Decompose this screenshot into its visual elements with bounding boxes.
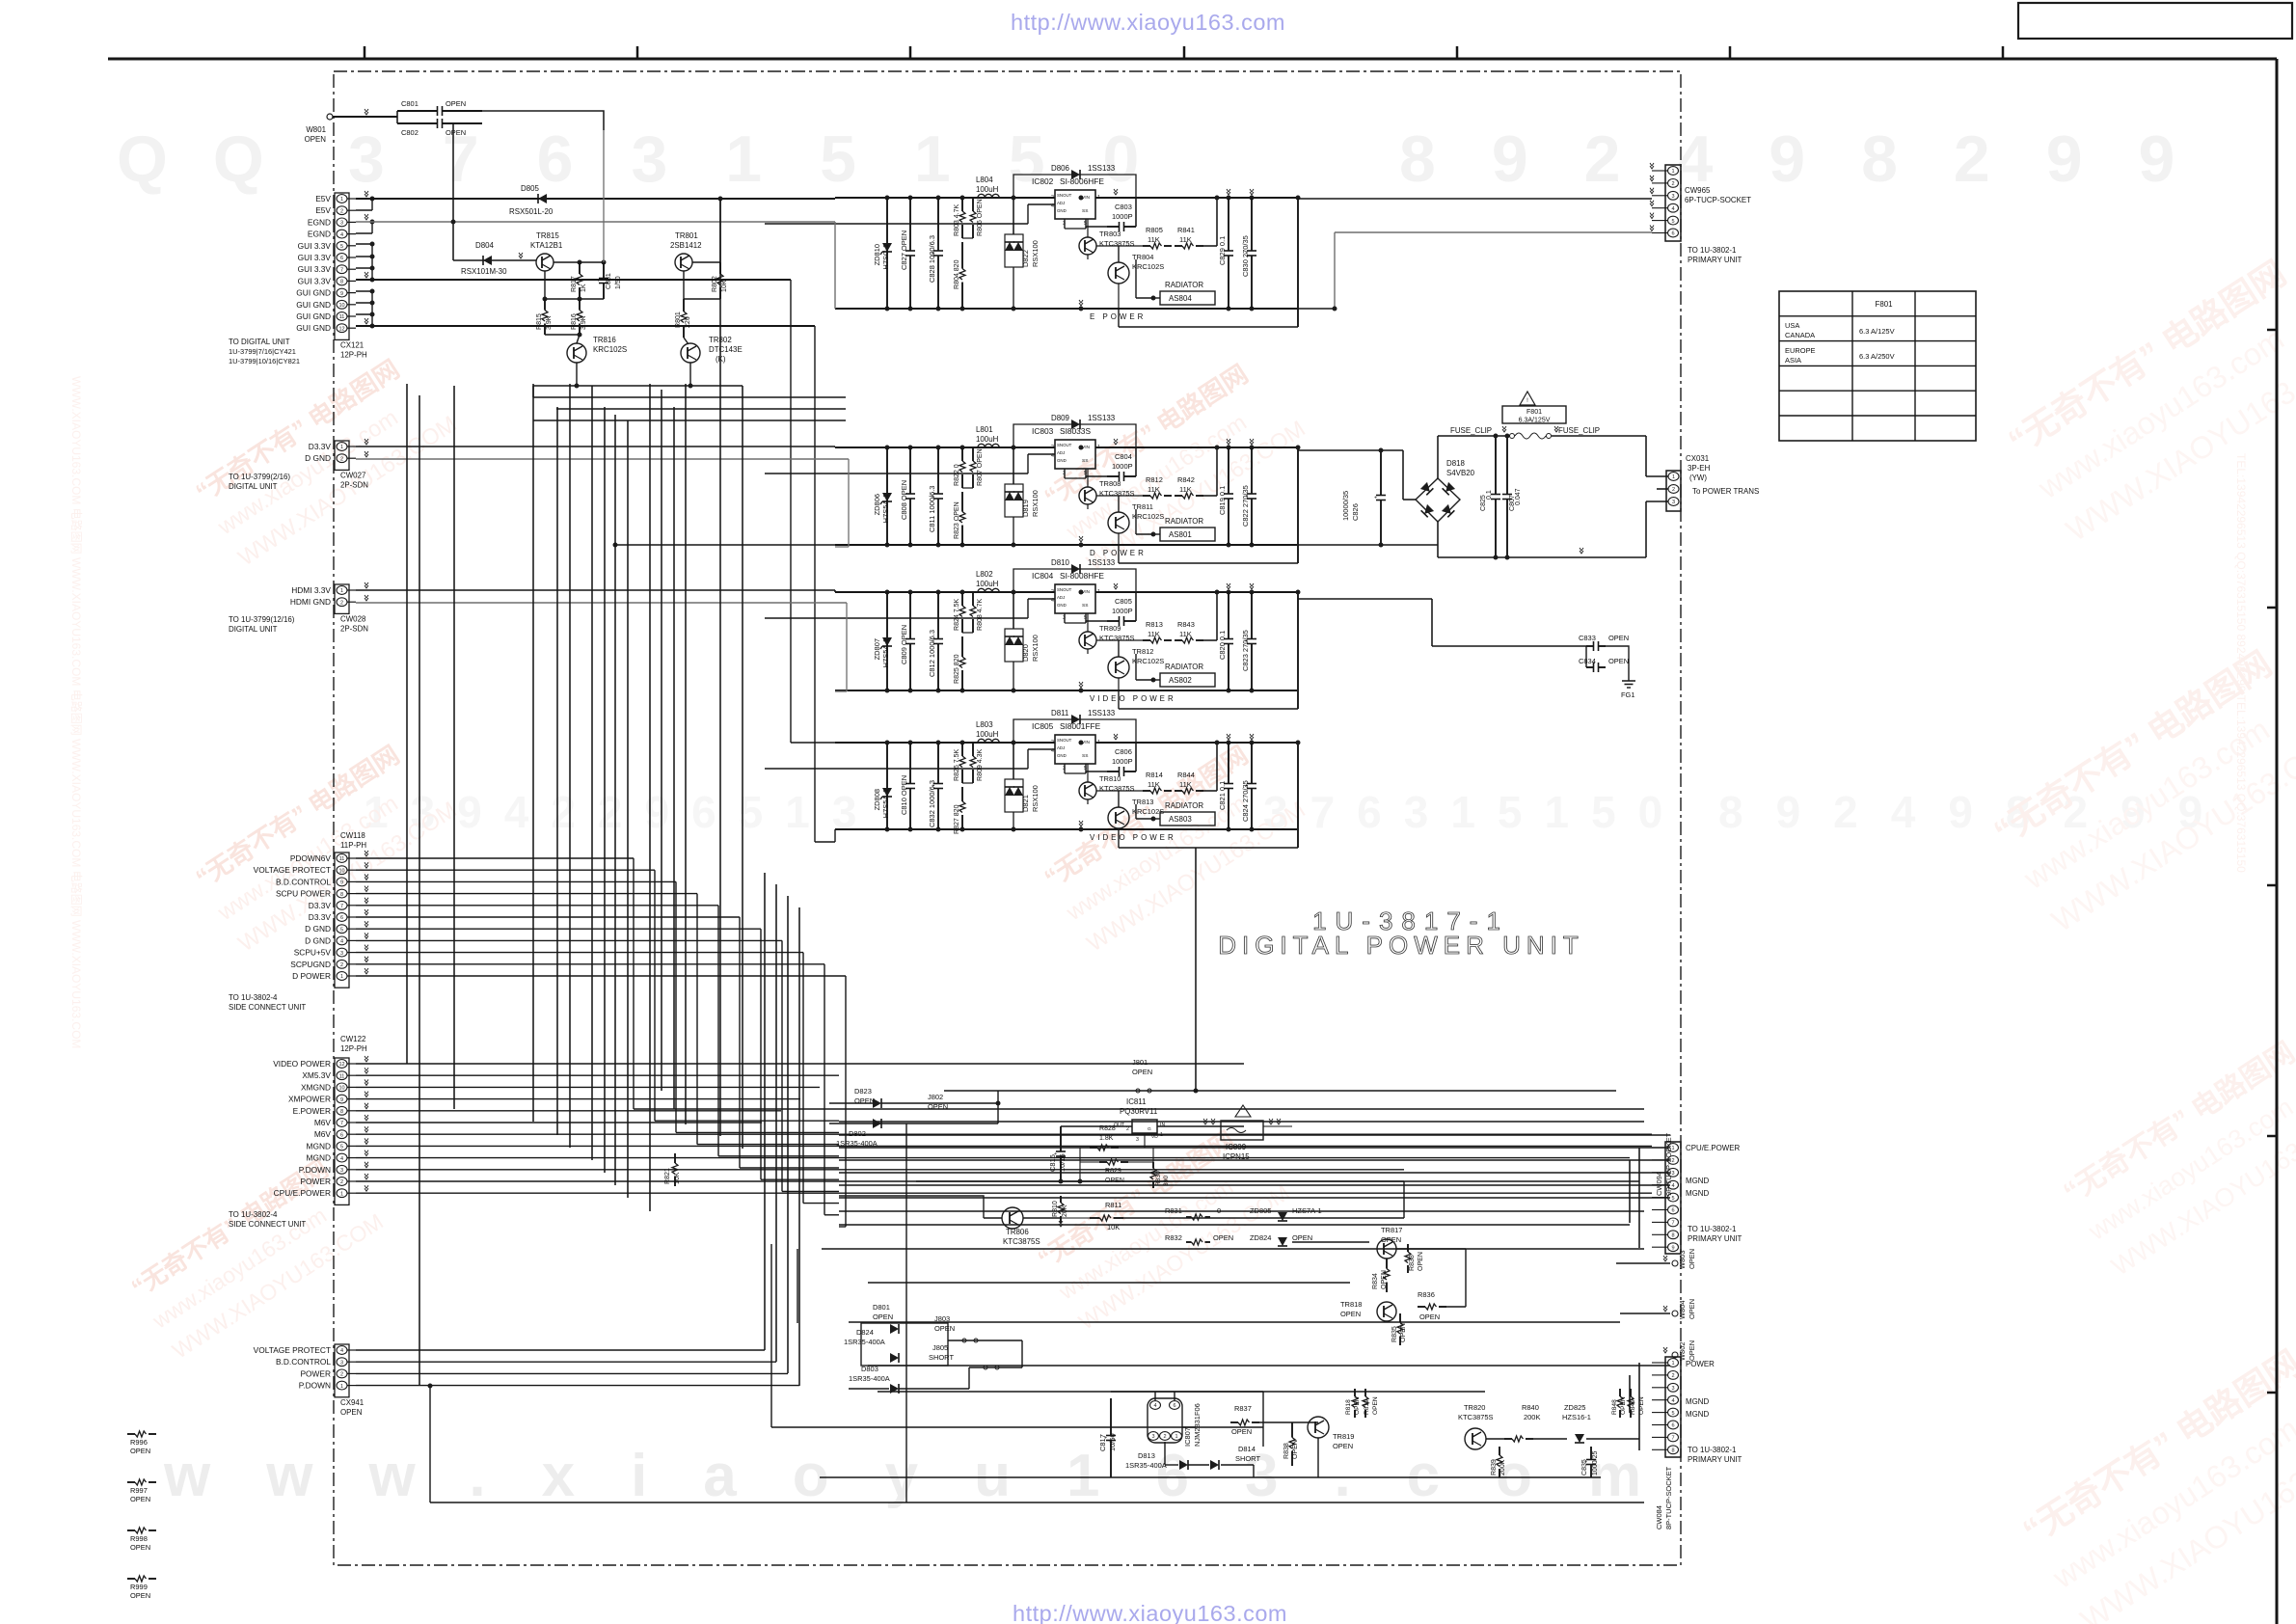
svg-text:AS804: AS804 bbox=[1169, 294, 1192, 303]
svg-text:RADIATOR: RADIATOR bbox=[1165, 801, 1203, 810]
svg-text:6: 6 bbox=[340, 1132, 343, 1138]
svg-text:VOLTAGE PROTECT: VOLTAGE PROTECT bbox=[254, 865, 331, 875]
svg-text:1: 1 bbox=[1671, 1361, 1674, 1367]
svg-text:DIGITAL UNIT: DIGITAL UNIT bbox=[229, 482, 278, 491]
capacitor C831 1/50 bbox=[603, 262, 605, 279]
resistor R805 11K bbox=[1143, 245, 1150, 247]
svg-text:3P-EH: 3P-EH bbox=[1688, 464, 1711, 473]
jumper W804 OPEN bbox=[1672, 1311, 1678, 1316]
svg-text:1SS133: 1SS133 bbox=[1088, 164, 1116, 173]
svg-text:100uH: 100uH bbox=[976, 185, 999, 194]
svg-text:(YW): (YW) bbox=[1689, 474, 1707, 482]
wire CW084 gathering bbox=[1638, 1363, 1640, 1450]
svg-text:VIDEO POWER: VIDEO POWER bbox=[273, 1059, 331, 1069]
capacitor C817 10/50 bbox=[1110, 1398, 1112, 1436]
svg-text:1: 1 bbox=[340, 588, 343, 594]
svg-text:R997: R997 bbox=[130, 1486, 148, 1495]
svg-text:3.9K: 3.9K bbox=[546, 315, 553, 330]
wire CW118 pin fanout bbox=[356, 857, 634, 859]
jumper W801 OPEN bbox=[327, 114, 333, 120]
svg-text:D GND: D GND bbox=[305, 935, 331, 945]
svg-text:6: 6 bbox=[1671, 1423, 1674, 1429]
svg-text:SIDE CONNECT UNIT: SIDE CONNECT UNIT bbox=[229, 1003, 306, 1012]
svg-text:2: 2 bbox=[340, 1372, 343, 1378]
svg-text:J802: J802 bbox=[928, 1093, 943, 1101]
svg-text:1: 1 bbox=[1175, 1434, 1177, 1440]
resistor R829 OPEN bbox=[1099, 1161, 1107, 1163]
diode D809 1SS133 bbox=[1013, 424, 1136, 447]
svg-text:VOLTAGE PROTECT: VOLTAGE PROTECT bbox=[254, 1345, 331, 1355]
wire to C833/C834 bbox=[1432, 645, 1586, 647]
svg-text:VD: VD bbox=[1151, 1134, 1158, 1140]
svg-text:5: 5 bbox=[340, 1145, 343, 1150]
svg-text:KRC102S: KRC102S bbox=[1132, 657, 1164, 665]
svg-text:D824: D824 bbox=[856, 1328, 874, 1337]
svg-text:J801: J801 bbox=[1132, 1058, 1148, 1067]
svg-text:1: 1 bbox=[340, 1191, 343, 1197]
capacitor C822 270/35 bbox=[1251, 447, 1253, 494]
svg-text:R803 4.7K: R803 4.7K bbox=[954, 203, 960, 236]
svg-text:RSX101M-30: RSX101M-30 bbox=[461, 267, 507, 276]
svg-text:IN: IN bbox=[1160, 1123, 1165, 1128]
svg-text:1SR35-400A: 1SR35-400A bbox=[1125, 1461, 1167, 1470]
svg-text:6.3A/125V: 6.3A/125V bbox=[1519, 418, 1551, 424]
frame top line bbox=[108, 58, 2277, 61]
transistor TR809 KTC3875S bbox=[1079, 632, 1096, 649]
svg-text:1SS133: 1SS133 bbox=[1088, 558, 1116, 567]
svg-text:ICPN15: ICPN15 bbox=[1223, 1152, 1250, 1161]
svg-text:R848: R848 bbox=[1611, 1399, 1618, 1415]
svg-text:KTC3875S: KTC3875S bbox=[1458, 1413, 1494, 1421]
svg-text:R815: R815 bbox=[536, 313, 543, 330]
warning triangle bbox=[1520, 392, 1535, 405]
fuse rating table bbox=[1779, 291, 1976, 441]
svg-text:KTA12B1: KTA12B1 bbox=[530, 241, 563, 250]
svg-text:R827 820: R827 820 bbox=[954, 804, 960, 834]
capacitor C829 0.1 bbox=[1228, 198, 1229, 251]
wire E5V rail bbox=[356, 198, 835, 200]
transistor TR804 KRC102S bbox=[1108, 262, 1129, 284]
IC IC805 SI8001FFE bbox=[1055, 735, 1095, 764]
svg-text:6: 6 bbox=[340, 915, 343, 921]
svg-text:ASIA: ASIA bbox=[1785, 356, 1801, 365]
svg-text:FUSE_CLIP: FUSE_CLIP bbox=[1558, 426, 1600, 435]
resistor R843 11K bbox=[1175, 639, 1182, 641]
svg-text:HZS16-1: HZS16-1 bbox=[1562, 1413, 1591, 1421]
svg-text:SHORT: SHORT bbox=[929, 1353, 954, 1362]
svg-text:2: 2 bbox=[340, 962, 343, 968]
svg-text:R812: R812 bbox=[1146, 475, 1163, 484]
svg-text:SS: SS bbox=[1082, 208, 1088, 214]
wires transistor connections bbox=[1096, 495, 1143, 497]
wire top rail bbox=[835, 447, 1055, 448]
svg-text:OPEN: OPEN bbox=[130, 1543, 150, 1552]
svg-text:5: 5 bbox=[1671, 219, 1674, 225]
diode D806 1SS133 bbox=[1013, 175, 1136, 198]
zener ZD808 bbox=[886, 743, 888, 829]
svg-text:SI-8008HFE: SI-8008HFE bbox=[1060, 571, 1104, 581]
svg-text:6.3 A/250V: 6.3 A/250V bbox=[1859, 352, 1895, 361]
svg-text:CX121: CX121 bbox=[340, 340, 365, 349]
svg-text:9: 9 bbox=[1671, 1245, 1674, 1251]
svg-text:OPEN: OPEN bbox=[1213, 1233, 1233, 1242]
svg-text:1: 1 bbox=[1097, 589, 1100, 595]
svg-text:C828 1000/6.3: C828 1000/6.3 bbox=[928, 235, 936, 283]
transistor TR813 KRC102S bbox=[1108, 807, 1129, 828]
svg-text:1K: 1K bbox=[581, 284, 587, 292]
wire vertical x470 bbox=[452, 222, 454, 260]
svg-text:VIDEO POWER: VIDEO POWER bbox=[1090, 833, 1176, 842]
resistor R841 11K bbox=[1175, 245, 1182, 247]
svg-text:W804: W804 bbox=[1678, 1300, 1687, 1319]
svg-text:2: 2 bbox=[340, 1179, 343, 1185]
wire ADJ control from bus bbox=[1028, 748, 1055, 750]
capacitor C828 1000/6.3 bbox=[937, 198, 939, 251]
svg-text:RSX100: RSX100 bbox=[1031, 490, 1040, 517]
svg-text:R816: R816 bbox=[571, 313, 578, 330]
svg-text:PRIMARY UNIT: PRIMARY UNIT bbox=[1688, 256, 1742, 264]
svg-text:R822 0: R822 0 bbox=[954, 464, 960, 486]
svg-text:J803: J803 bbox=[934, 1314, 950, 1323]
svg-text:6: 6 bbox=[340, 256, 343, 261]
svg-text:R839: R839 bbox=[1491, 1459, 1498, 1475]
IC IC803 SI8033S bbox=[1055, 440, 1095, 469]
svg-text:HZS7A-1: HZS7A-1 bbox=[1292, 1206, 1322, 1215]
svg-text:DIGITAL UNIT: DIGITAL UNIT bbox=[229, 625, 278, 634]
svg-text:IC804: IC804 bbox=[1032, 571, 1054, 581]
svg-text:10K: 10K bbox=[721, 280, 728, 292]
svg-text:FG1: FG1 bbox=[1621, 690, 1635, 699]
svg-text:OPEN: OPEN bbox=[446, 128, 466, 137]
svg-text:P.DOWN: P.DOWN bbox=[299, 1381, 331, 1391]
svg-text:10K: 10K bbox=[674, 1172, 681, 1184]
svg-text:R838: R838 bbox=[1283, 1443, 1290, 1459]
svg-text:POWER: POWER bbox=[1686, 1360, 1715, 1368]
svg-text:OPEN: OPEN bbox=[1340, 1310, 1361, 1318]
svg-text:C805: C805 bbox=[1115, 597, 1132, 606]
wire C833 feed vertical bbox=[1431, 599, 1433, 646]
svg-text:KRC102S: KRC102S bbox=[1132, 512, 1164, 521]
transistor TR806 KTC3875S bbox=[1002, 1207, 1023, 1229]
wire bottom rail bbox=[835, 828, 1297, 830]
svg-text:2: 2 bbox=[1051, 740, 1054, 745]
wire y1225 bbox=[916, 1180, 1404, 1182]
svg-text:1: 1 bbox=[340, 1384, 343, 1390]
svg-text:9: 9 bbox=[340, 1097, 343, 1103]
connector CX941 OPEN bbox=[335, 1344, 349, 1397]
capacitor C832 1000/6.3 bbox=[937, 743, 939, 784]
svg-text:W803: W803 bbox=[1678, 1250, 1687, 1269]
svg-text:7: 7 bbox=[340, 1121, 343, 1126]
svg-text:D3.3V: D3.3V bbox=[309, 442, 332, 451]
capacitor C821 0.1 bbox=[1228, 743, 1229, 784]
svg-text:www.xiaoyu163.com: www.xiaoyu163.com bbox=[163, 1443, 1697, 1509]
svg-text:CW084: CW084 bbox=[1655, 1505, 1663, 1529]
resistor R839 200K bbox=[1499, 1447, 1500, 1455]
svg-text:GUI GND: GUI GND bbox=[296, 311, 331, 321]
svg-text:1: 1 bbox=[1097, 445, 1100, 450]
svg-text:USA: USA bbox=[1785, 321, 1799, 330]
svg-text:4: 4 bbox=[340, 939, 343, 945]
svg-text:2SB1412: 2SB1412 bbox=[670, 241, 702, 250]
svg-text:10: 10 bbox=[338, 303, 344, 309]
svg-text:1: 1 bbox=[1097, 195, 1100, 201]
svg-text:4: 4 bbox=[340, 1348, 343, 1354]
svg-text:OPEN: OPEN bbox=[1608, 634, 1629, 642]
svg-text:KRC102S: KRC102S bbox=[1132, 262, 1164, 271]
svg-text:SNOUT: SNOUT bbox=[1057, 193, 1072, 198]
svg-text:OPEN: OPEN bbox=[305, 135, 327, 144]
fuse symbol bbox=[1438, 435, 1509, 437]
svg-text:SCPUGND: SCPUGND bbox=[290, 960, 331, 969]
svg-text:OPEN: OPEN bbox=[934, 1324, 955, 1333]
svg-text:11K: 11K bbox=[1148, 485, 1160, 494]
svg-text:R810: R810 bbox=[1052, 1201, 1059, 1217]
svg-text:OPEN: OPEN bbox=[1400, 1323, 1407, 1342]
connector CX121 12P-PH bbox=[335, 193, 349, 339]
svg-text:R841: R841 bbox=[1177, 226, 1195, 234]
svg-text:C826: C826 bbox=[1351, 503, 1360, 521]
svg-text:OPEN: OPEN bbox=[130, 1591, 150, 1600]
svg-text:W802: W802 bbox=[1678, 1341, 1687, 1361]
svg-text:CANADA: CANADA bbox=[1785, 331, 1815, 339]
svg-text:ZD824: ZD824 bbox=[1250, 1233, 1271, 1242]
capacitor C802 OPEN bbox=[397, 122, 438, 124]
svg-text:KTC3875S: KTC3875S bbox=[1003, 1237, 1040, 1246]
connector CW094 9P-TUCP-SOCKET bbox=[1665, 1142, 1681, 1254]
svg-text:EUROPE: EUROPE bbox=[1785, 346, 1816, 355]
svg-text:10/50: 10/50 bbox=[1108, 1433, 1117, 1451]
svg-text:SI8033S: SI8033S bbox=[1060, 426, 1091, 436]
svg-text:RSX501L-20: RSX501L-20 bbox=[509, 207, 554, 216]
wire CX121 pin joins bbox=[371, 199, 373, 210]
wire bottom rail fuse area bbox=[1438, 556, 1646, 558]
svg-text:0: 0 bbox=[1217, 1206, 1221, 1215]
svg-text:F801: F801 bbox=[1875, 300, 1893, 309]
svg-text:4: 4 bbox=[1671, 206, 1674, 212]
svg-text:TO 1U-3802-1: TO 1U-3802-1 bbox=[1688, 246, 1737, 255]
capacitor C824 270/35 bbox=[1251, 743, 1253, 784]
svg-text:VIN: VIN bbox=[1082, 445, 1091, 450]
svg-text:C804: C804 bbox=[1115, 452, 1132, 461]
capacitor C830 270/35 bbox=[1251, 198, 1253, 251]
svg-text:IC803: IC803 bbox=[1032, 426, 1054, 436]
wire HDMI GND bbox=[356, 602, 847, 604]
svg-text:11K: 11K bbox=[1179, 235, 1192, 244]
capacitor C827 OPEN bbox=[909, 198, 911, 251]
svg-text:CW028: CW028 bbox=[340, 614, 366, 623]
svg-text:R801: R801 bbox=[675, 311, 682, 328]
svg-text:TO 1U-3799(2/16): TO 1U-3799(2/16) bbox=[229, 473, 290, 481]
svg-text:HDMI GND: HDMI GND bbox=[290, 597, 331, 607]
svg-text:892498299: 892498299 bbox=[1399, 122, 2230, 196]
fuse F801 box bbox=[1502, 406, 1566, 423]
resistor R826 / R809 pair bbox=[961, 743, 963, 756]
resistor R803 / R806 pair bbox=[961, 198, 963, 211]
svg-text:KTC3875S: KTC3875S bbox=[1099, 489, 1135, 498]
svg-text:TR801: TR801 bbox=[675, 231, 698, 240]
svg-text:1000P: 1000P bbox=[1112, 607, 1133, 615]
svg-text:SCPU POWER: SCPU POWER bbox=[276, 889, 331, 899]
transistor TR819 OPEN bbox=[1308, 1417, 1329, 1438]
svg-text:VIN: VIN bbox=[1082, 195, 1091, 201]
resistor R824 / R808 pair bbox=[961, 592, 963, 606]
svg-text:3: 3 bbox=[1151, 1434, 1154, 1440]
wire video power vertical x1240 bbox=[1195, 848, 1197, 1091]
svg-text:AS801: AS801 bbox=[1169, 530, 1192, 539]
svg-text:ZD805: ZD805 bbox=[1250, 1206, 1271, 1215]
svg-text:200K: 200K bbox=[1499, 1459, 1506, 1475]
resistor R804 bbox=[961, 242, 963, 269]
svg-text:TR815: TR815 bbox=[536, 231, 559, 240]
svg-text:TR816: TR816 bbox=[593, 336, 616, 344]
svg-text:R840: R840 bbox=[1522, 1403, 1539, 1412]
svg-text:R830: R830 bbox=[1155, 1171, 1162, 1186]
svg-text:CW965: CW965 bbox=[1685, 186, 1711, 195]
svg-text:3: 3 bbox=[1671, 1386, 1674, 1392]
resistor R814 11K bbox=[1143, 790, 1150, 792]
wire block right vertical bbox=[1297, 743, 1299, 848]
svg-text:TR808: TR808 bbox=[1099, 479, 1121, 488]
svg-text:C817: C817 bbox=[1098, 1434, 1107, 1451]
svg-text:1000P: 1000P bbox=[1112, 462, 1133, 471]
svg-text:TO 1U-3802-1: TO 1U-3802-1 bbox=[1688, 1446, 1737, 1454]
capacitor C801 OPEN bbox=[397, 110, 438, 112]
wire ADJ control from bus bbox=[1028, 598, 1055, 600]
wire long vertical bus bbox=[406, 384, 408, 1064]
svg-text:1SS133: 1SS133 bbox=[1088, 709, 1116, 717]
svg-text:C820 0.1: C820 0.1 bbox=[1218, 631, 1227, 660]
inductor L804 100uH bbox=[978, 194, 999, 198]
svg-text:R996: R996 bbox=[130, 1438, 148, 1447]
diode D810 1SS133 bbox=[1013, 569, 1136, 592]
svg-text:TO 1U-3799(12/16): TO 1U-3799(12/16) bbox=[229, 615, 295, 624]
svg-text:2P-SDN: 2P-SDN bbox=[340, 624, 368, 633]
svg-text:AS803: AS803 bbox=[1169, 815, 1192, 824]
wire block right vertical bbox=[1297, 198, 1299, 327]
svg-text:D811: D811 bbox=[1051, 709, 1069, 717]
svg-text:GUI 3.3V: GUI 3.3V bbox=[298, 276, 332, 285]
svg-text:E POWER: E POWER bbox=[1090, 312, 1146, 321]
svg-text:TO 1U-3802-1: TO 1U-3802-1 bbox=[1688, 1225, 1737, 1233]
wire block right vertical bbox=[1297, 447, 1299, 563]
svg-text:1SR35-400A: 1SR35-400A bbox=[844, 1338, 885, 1346]
transistor TR803 KTC3875S bbox=[1079, 237, 1096, 255]
transistor TR802 DTC143E bbox=[681, 343, 700, 363]
svg-text:OPEN: OPEN bbox=[1372, 1396, 1379, 1415]
svg-text:R828: R828 bbox=[1099, 1125, 1116, 1132]
bridge rectifier D818 S4VB20 bbox=[1416, 478, 1460, 522]
svg-text:2: 2 bbox=[1671, 181, 1674, 187]
svg-text:WWW.XIAOYU163.COM 电路图网 WWW.XIA: WWW.XIAOYU163.COM 电路图网 WWW.XIAOYU163.COM… bbox=[69, 376, 84, 1048]
wire junction row y310 bbox=[544, 271, 546, 299]
svg-text:+: + bbox=[1374, 496, 1377, 501]
svg-text:10K: 10K bbox=[1107, 1223, 1120, 1232]
pink watermarks bbox=[190, 344, 462, 572]
svg-text:H7S5A-1: H7S5A-1 bbox=[881, 494, 890, 523]
wire IC807 top bbox=[1154, 1392, 1156, 1400]
svg-text:D POWER: D POWER bbox=[292, 971, 331, 981]
svg-text:C827 OPEN: C827 OPEN bbox=[900, 230, 908, 270]
svg-text:KTC3875S: KTC3875S bbox=[1099, 239, 1135, 248]
svg-text:12P-PH: 12P-PH bbox=[340, 1044, 367, 1053]
svg-text:C801: C801 bbox=[401, 99, 419, 108]
svg-text:D810: D810 bbox=[1051, 558, 1070, 567]
svg-text:1000/25: 1000/25 bbox=[1592, 1450, 1599, 1475]
svg-text:H7S5A-1: H7S5A-1 bbox=[881, 638, 890, 667]
svg-text:R819: R819 bbox=[1364, 1399, 1370, 1415]
wire EGND rail bbox=[356, 221, 835, 223]
svg-text:4: 4 bbox=[340, 232, 343, 238]
svg-text:R806 OPEN: R806 OPEN bbox=[977, 199, 984, 236]
diode D804 RSX101M-30 bbox=[453, 259, 536, 261]
svg-text:C812 1000/6.3: C812 1000/6.3 bbox=[928, 630, 936, 677]
svg-text:R826 7.5K: R826 7.5K bbox=[954, 748, 960, 781]
wire E block to CW965 bbox=[1297, 198, 1652, 200]
svg-text:D823: D823 bbox=[854, 1087, 872, 1096]
svg-text:CPU/E.POWER: CPU/E.POWER bbox=[274, 1188, 331, 1198]
capacitor C823 270/35 bbox=[1251, 592, 1253, 639]
resistor R838 OPEN bbox=[1291, 1422, 1293, 1438]
IC809 ICPN15 bbox=[1221, 1121, 1263, 1140]
svg-text:OPEN: OPEN bbox=[1354, 1396, 1361, 1415]
svg-text:R825 820: R825 820 bbox=[954, 654, 960, 684]
wire bottom area connections bbox=[829, 1123, 998, 1124]
svg-text:OPEN: OPEN bbox=[1688, 1299, 1696, 1319]
svg-text:L801: L801 bbox=[976, 425, 993, 434]
svg-text:QQ: QQ bbox=[117, 122, 310, 196]
svg-text:MGND: MGND bbox=[1686, 1397, 1709, 1406]
inductor L802 100uH bbox=[978, 588, 999, 592]
svg-text:1: 1 bbox=[340, 197, 343, 203]
svg-text:TO 1U-3802-4: TO 1U-3802-4 bbox=[229, 993, 278, 1002]
wire GUI GND bus bbox=[356, 325, 815, 327]
wire block right vertical bbox=[1297, 592, 1299, 709]
warning triangle IC809 bbox=[1235, 1105, 1251, 1117]
svg-text:1SR35-400A: 1SR35-400A bbox=[849, 1374, 890, 1383]
svg-text:ADJ: ADJ bbox=[1057, 745, 1065, 750]
svg-text:1/50: 1/50 bbox=[615, 276, 622, 289]
IC bottom pin stubs bbox=[1064, 469, 1066, 478]
svg-text:P.DOWN: P.DOWN bbox=[299, 1165, 331, 1175]
svg-text:POWER: POWER bbox=[300, 1368, 331, 1378]
svg-text:1SR35-400A: 1SR35-400A bbox=[836, 1139, 878, 1148]
svg-text:11K: 11K bbox=[1179, 780, 1192, 789]
svg-text:3: 3 bbox=[340, 1168, 343, 1174]
svg-text:E.POWER: E.POWER bbox=[293, 1106, 331, 1116]
svg-text:XMGND: XMGND bbox=[301, 1082, 331, 1092]
svg-text:2: 2 bbox=[1671, 1373, 1674, 1379]
svg-text:R835: R835 bbox=[1391, 1326, 1398, 1342]
transistor TR816 KRC102S bbox=[567, 343, 586, 363]
svg-text:1: 1 bbox=[1672, 474, 1675, 480]
wire ADJ control from bus bbox=[1028, 453, 1055, 455]
transistor TR801 2SB1412 bbox=[675, 254, 692, 271]
svg-text:2: 2 bbox=[1163, 1434, 1166, 1440]
svg-text:11: 11 bbox=[339, 856, 345, 862]
svg-text:R805: R805 bbox=[1146, 226, 1163, 234]
svg-text:D GND: D GND bbox=[305, 453, 331, 463]
svg-text:2: 2 bbox=[1051, 589, 1054, 595]
svg-text:KRC102S: KRC102S bbox=[1132, 807, 1164, 816]
svg-text:TR817: TR817 bbox=[1381, 1226, 1402, 1234]
svg-text:R829: R829 bbox=[1105, 1168, 1121, 1175]
capacitors C825 0.1 / C807 0.047 bbox=[1495, 436, 1497, 495]
svg-text:OPEN: OPEN bbox=[1132, 1068, 1152, 1076]
wire CX941 riser bbox=[429, 1386, 431, 1502]
IC IC804 SI-8008HFE bbox=[1055, 584, 1095, 613]
svg-text:1: 1 bbox=[1097, 740, 1100, 745]
